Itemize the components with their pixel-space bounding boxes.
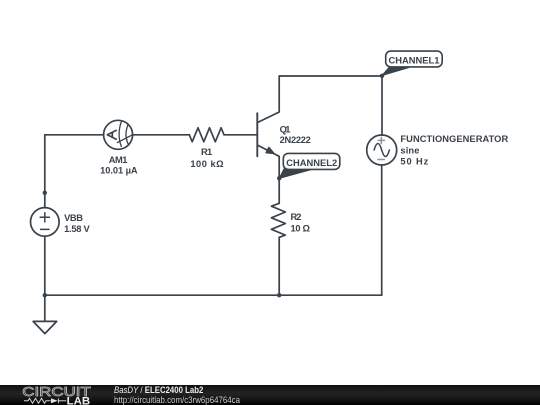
ground xyxy=(33,321,57,333)
svg-text:http://circuitlab.com/c3rw6p64: http://circuitlab.com/c3rw6p64764ca xyxy=(114,394,240,404)
svg-text:R2: R2 xyxy=(291,212,302,222)
svg-text:10 Ω: 10 Ω xyxy=(291,224,311,234)
svg-text:50 Hz: 50 Hz xyxy=(400,157,428,167)
svg-text:AM1: AM1 xyxy=(109,155,128,165)
svg-text:10.01 µA: 10.01 µA xyxy=(100,166,138,176)
logo resistor-diode glyph xyxy=(24,398,66,403)
label flag CHANNEL2 xyxy=(279,153,340,178)
wire emitter down to R2 xyxy=(278,156,280,203)
svg-text:R1: R1 xyxy=(201,147,212,157)
ammeter AM1 xyxy=(104,120,133,149)
wire bottom rail xyxy=(45,294,382,296)
node CHANNEL1 junction xyxy=(380,74,384,78)
label AM1 value xyxy=(100,155,138,176)
label FUNCTIONGENERATOR value xyxy=(400,134,508,166)
wire VBB to bottom rail xyxy=(44,236,46,295)
label VBB value xyxy=(64,213,90,234)
svg-text:BasDY / ELEC2400 Lab2: BasDY / ELEC2400 Lab2 xyxy=(114,385,203,395)
wire left vertical (top corner to VBB top) xyxy=(44,135,46,208)
svg-text:CHANNEL2: CHANNEL2 xyxy=(286,158,337,168)
svg-text:FUNCTIONGENERATOR: FUNCTIONGENERATOR xyxy=(400,134,508,144)
svg-text:Q1: Q1 xyxy=(280,125,291,135)
node VBB top terminal dot xyxy=(43,191,47,195)
label flag CHANNEL1 xyxy=(382,51,442,75)
wire R1 to base xyxy=(224,134,257,136)
wire top-left horizontal to ammeter xyxy=(45,134,104,136)
wire collector to channel1 node xyxy=(279,75,382,77)
voltage source VBB xyxy=(31,208,60,237)
svg-text:1.58 V: 1.58 V xyxy=(64,224,90,234)
wire R2 to bottom rail xyxy=(278,237,280,295)
wire to ground xyxy=(44,295,46,321)
svg-text:LAB: LAB xyxy=(67,395,91,405)
resistor R2 xyxy=(271,203,285,237)
svg-text:2N2222: 2N2222 xyxy=(280,135,311,145)
wire channel1 node to function generator xyxy=(381,76,383,135)
wire function generator to bottom rail xyxy=(381,165,383,295)
node CHANNEL2 junction xyxy=(277,176,281,180)
label Q1 value xyxy=(280,125,311,145)
label R1 value xyxy=(190,147,224,169)
svg-text:CHANNEL1: CHANNEL1 xyxy=(389,55,440,65)
transistor Q1 xyxy=(257,76,279,156)
wire ammeter to R1 xyxy=(133,134,190,136)
function generator V1 xyxy=(367,135,397,165)
node ground junction xyxy=(43,293,47,297)
node R2-rail junction xyxy=(277,293,281,297)
footer bar xyxy=(0,385,540,405)
svg-text:VBB: VBB xyxy=(64,213,83,223)
resistor R1 xyxy=(189,128,224,142)
svg-text:sine: sine xyxy=(400,145,419,155)
label R2 value xyxy=(291,212,311,233)
svg-text:100 kΩ: 100 kΩ xyxy=(190,159,224,169)
